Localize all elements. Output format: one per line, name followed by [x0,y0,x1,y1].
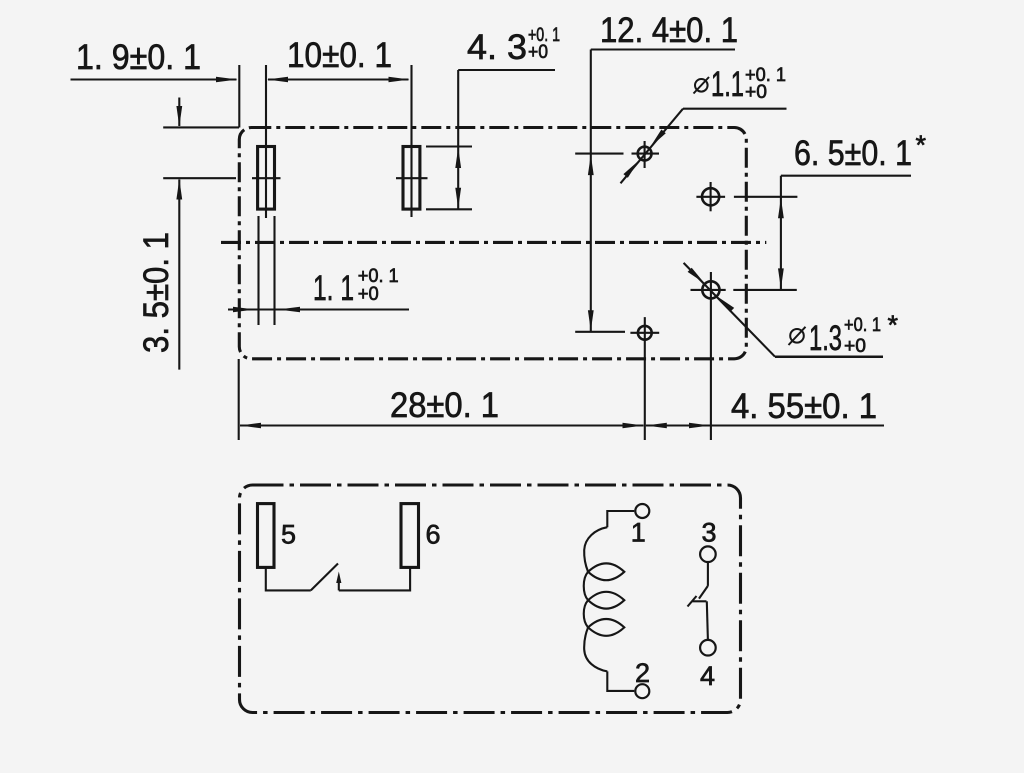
dim 10 line [268,78,409,80]
svg-text:10±0. 1: 10±0. 1 [287,36,392,75]
svg-text:1. 1: 1. 1 [313,269,354,308]
contact blade diagonal [699,586,708,599]
svg-text:6: 6 [426,520,441,550]
contact pin 3 circle [700,546,716,562]
svg-text:5: 5 [281,520,296,550]
svg-text:6. 5±0. 1: 6. 5±0. 1 [794,134,912,173]
svg-text:+0: +0 [745,81,767,103]
svg-text:3. 5±0. 1: 3. 5±0. 1 [137,232,176,353]
dim 6.5 underline [781,175,911,177]
coil pin 1 circle [635,504,649,518]
diameter symbol d1.3 [790,329,804,343]
arrow d1.3 leader lower [717,297,734,313]
dim 3.5 lower segment [178,180,180,370]
schematic pin 6 rectangle [401,504,419,568]
hole d1.1 leader diagonal [621,109,684,184]
arrow dim12.4 down [588,310,594,331]
svg-text:*: * [888,310,899,340]
arrow dim1.9 right [216,77,238,83]
slot pin 5 footprint [258,147,275,210]
svg-text:12. 4±0. 1: 12. 4±0. 1 [600,11,738,50]
coil wire top [607,511,634,527]
svg-text:3: 3 [702,518,717,548]
svg-text:4. 55±0. 1: 4. 55±0. 1 [731,387,877,426]
contact bar horizontal [692,600,706,602]
dim 12.4 leader horizontal [591,48,735,50]
arrow dim6.5 down [778,268,784,289]
diameter symbol d1.1 [695,79,708,92]
switch wire to pin 6 [339,567,410,590]
contact stub from pin 3 [707,562,709,586]
arrow dim3.5 down [176,106,182,127]
coil loop 1 (lens) [588,563,624,580]
dim 4.3 leader horizontal [458,69,555,71]
hole d1.1 top crosshair [632,153,660,155]
hole pin4 d1.3 [702,281,719,298]
svg-text:28±0. 1: 28±0. 1 [390,386,499,425]
dim 6.5 vertical line [780,176,782,290]
arrow d1.1 leader lower [623,160,639,178]
slot pin 5 center line [265,65,267,218]
hole d1.1 top [638,147,652,161]
arrow dim28 left [240,423,261,429]
dim 3.5 upper segment [178,98,180,127]
hole d1.1 bottom [638,326,652,340]
slot pin 6 footprint [403,147,420,210]
slot pin 5 side extension lines [257,216,259,325]
hole pin4 crosshair [691,289,726,291]
hole d1.1 bottom crosshair [630,332,659,334]
svg-text:+0: +0 [844,335,866,357]
svg-text:+0: +0 [528,41,548,63]
dim 1.9 line [71,78,237,80]
svg-text:1: 1 [631,518,646,548]
contact tick [688,596,697,607]
dim 4.55 line between extensions [646,424,710,426]
svg-text:1.3: 1.3 [809,319,842,358]
hole pin3 crosshair [696,196,725,198]
slot pin 6 center line [410,65,412,217]
coil loop 2 (lens) [588,592,624,609]
schematic pin 5 rectangle [258,504,275,568]
arrow dim4.55 left [646,423,667,429]
slot pin 5 crosshair horizontal [252,177,281,179]
hole d1.1 leader underline [683,108,787,110]
hole pin4 right tick [733,289,797,291]
dim 12.4 top tick [575,153,623,155]
coil left arc entry [584,527,607,572]
dim 28 left extension [238,359,240,440]
svg-text:*: * [916,130,927,160]
contact stub to pin 4 [707,601,708,640]
arrow dim10 left [267,77,288,83]
arrow dim12.4 up [588,155,594,176]
switch arrow head [336,572,341,584]
arrow dim4.3 down [455,188,461,209]
hole pin4 leader diagonal [684,263,775,357]
hole pin3 d1.3 [702,188,719,205]
schematic box (dash-dot) [240,485,741,713]
arrow dim4.55 right [689,423,710,429]
svg-text:4: 4 [700,661,715,691]
dim 12.4 bottom tick [575,331,625,333]
dim 4.3 vertical line [457,70,459,209]
svg-text:+0. 1: +0. 1 [844,314,881,336]
extension line outline left edge [238,65,240,128]
horizontal center line of footprint [221,241,766,244]
coil wire bottom [607,671,634,691]
arrow dim1.1 left [278,307,300,313]
arrow dim1.1 right [233,307,255,313]
relay body outline (top footprint view, dash-dot) [239,128,746,359]
arrow d1.1 leader upper [650,130,666,148]
svg-text:2: 2 [635,658,650,688]
arrow dim10 right [389,77,410,83]
slot pin 6 crosshair horizontal [396,177,428,179]
hole pin4 leader underline [775,355,883,358]
dim 12.4 vertical line [590,50,592,332]
svg-text:1. 9±0. 1: 1. 9±0. 1 [76,38,201,77]
dim 3.5 top tick [163,126,239,128]
dim 3.5 bottom tick [163,177,236,179]
dim 4.3 bottom tick [426,208,472,210]
coil pin 2 circle [635,684,649,698]
coil loop 3 (lens) [588,619,624,636]
dim 4.55 line right part [712,424,884,426]
switch arrow stem [338,577,340,590]
contact pin 4 circle [700,640,716,656]
arrow dim4.3 up [455,148,461,169]
arrow d1.3 leader upper [688,268,705,284]
switch blade [311,564,338,591]
dim 1.1 slot line [228,308,409,310]
arrow dim3.5 up [176,179,182,200]
arrow dim6.5 up [778,198,784,219]
coil left arc exit [584,627,607,671]
arrow dim28 right [623,423,644,429]
svg-text:1.1: 1.1 [711,65,744,104]
dim 4.3 top tick [426,145,472,147]
switch wire from pin 5 [266,567,311,590]
coil left arc 1-2 [584,572,588,600]
svg-text:+0: +0 [358,283,379,305]
dim 28 line [240,424,644,426]
svg-text:4. 3: 4. 3 [467,28,527,67]
coil left arc 2-3 [584,600,588,627]
hole pin3 right tick [734,196,798,198]
